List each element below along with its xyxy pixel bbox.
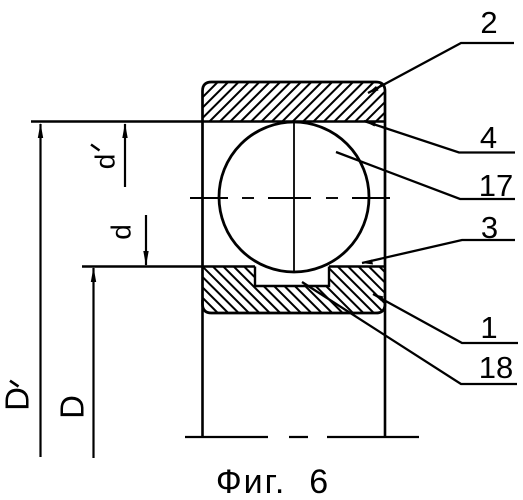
leader 18 (302, 282, 517, 384)
dimension d arrow (145, 215, 147, 265)
svg-text:d: d (105, 224, 136, 240)
leader 2 (368, 43, 514, 93)
ball vertical center line (293, 123, 295, 273)
bore side extension lines (201, 300, 204, 437)
svg-text:D: D (0, 387, 36, 411)
leader 17 (336, 152, 515, 199)
dimension d' arrow (124, 124, 126, 187)
dimension D' line (39, 124, 41, 457)
bearing outline (203, 82, 386, 313)
leader 1 (373, 294, 518, 343)
svg-text:2: 2 (480, 5, 497, 40)
svg-text:4: 4 (480, 120, 497, 155)
svg-text:D: D (54, 395, 91, 419)
svg-text:d: d (89, 154, 120, 170)
leader 4 (364, 121, 515, 153)
dimension D line (92, 268, 94, 458)
svg-text:Фиг. 6: Фиг. 6 (216, 463, 330, 500)
ball 17 (219, 122, 369, 272)
outer ring 2 hatch (158, 82, 426, 122)
inner ring top surface line right (329, 265, 385, 267)
raceway notch 18 (255, 267, 329, 287)
svg-text:17: 17 (479, 168, 513, 203)
inner ring 1 hatch (151, 267, 437, 314)
inner ring top surface line left (and D/d extension) (82, 265, 255, 267)
axis line (dash-dot) (185, 436, 419, 438)
svg-text:3: 3 (481, 210, 498, 245)
outer ring bore surface line (and D'/d' extension) (31, 120, 385, 122)
svg-text:1: 1 (480, 310, 497, 345)
leader 3 (362, 240, 515, 263)
ball horizontal center line (dash-dot) (190, 197, 390, 199)
svg-text:18: 18 (479, 350, 513, 385)
